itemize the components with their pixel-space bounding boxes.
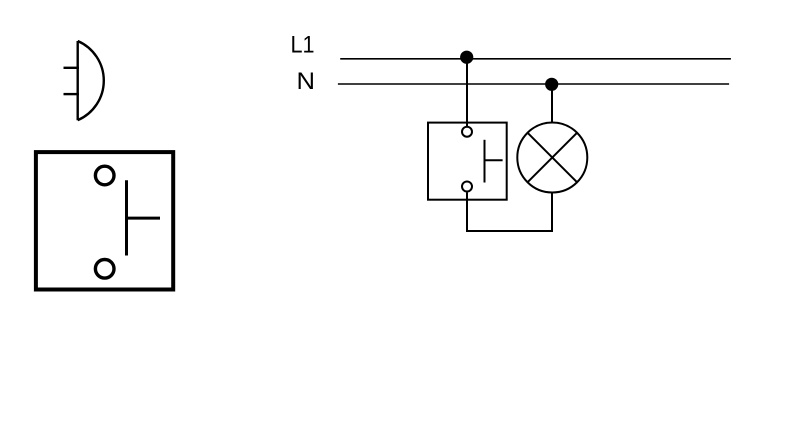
svg-text:L1: L1 bbox=[291, 33, 315, 59]
svg-text:N: N bbox=[297, 68, 316, 95]
